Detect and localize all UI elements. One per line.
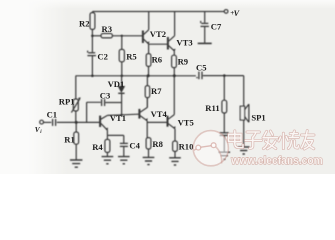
ground R10 <box>169 158 181 165</box>
resistor R8 <box>146 138 151 149</box>
transistor VT3 <box>167 37 169 50</box>
svg-text:R6: R6 <box>152 55 163 65</box>
wire R3 run <box>92 35 101 37</box>
wire VT2 emitter to VT3 base <box>149 43 168 45</box>
scan background <box>0 0 335 174</box>
svg-text:SP1: SP1 <box>251 112 265 122</box>
svg-text:R5: R5 <box>126 52 137 62</box>
wire VT5 collector column <box>173 76 175 115</box>
svg-text:C5: C5 <box>196 62 207 72</box>
capacitor C3 <box>87 102 101 122</box>
transistor VT4 <box>138 109 140 119</box>
svg-text:C2: C2 <box>97 51 108 61</box>
wire VT2 emitter down <box>148 44 150 53</box>
ground C4 <box>118 157 130 164</box>
svg-text:R10: R10 <box>179 142 194 152</box>
wire VT3 emitter down <box>173 51 175 55</box>
电 <box>229 131 243 148</box>
resistor R4 <box>106 135 108 139</box>
ground R8 <box>143 157 155 164</box>
发 <box>263 131 278 149</box>
wire VT1 emitter <box>107 130 123 135</box>
svg-text:R4: R4 <box>92 142 103 152</box>
svg-text:R1: R1 <box>64 134 75 144</box>
node input junction <box>75 121 78 124</box>
transistor VT1 <box>99 116 101 127</box>
子 <box>245 132 261 148</box>
node R5-VD1 bus <box>121 75 124 78</box>
svg-text:VT3: VT3 <box>176 37 192 47</box>
svg-text:VD1: VD1 <box>108 79 125 89</box>
svg-text:R7: R7 <box>151 86 162 96</box>
capacitor C5 <box>198 72 200 80</box>
svg-text:R8: R8 <box>152 139 163 149</box>
svg-text:VT4: VT4 <box>151 109 168 119</box>
resistor R10 <box>173 141 178 151</box>
svg-text:R2: R2 <box>79 18 90 28</box>
node R2-R3 junction <box>91 35 94 38</box>
svg-text:VT2: VT2 <box>150 29 166 39</box>
resistor R6 <box>146 54 151 67</box>
resistor R5 <box>121 36 123 50</box>
svg-text:VT5: VT5 <box>178 117 194 127</box>
resistor R7 <box>145 86 150 98</box>
resistor R9 <box>172 55 177 67</box>
wire mid horizontal bus <box>76 75 196 77</box>
capacitor C6 <box>220 132 229 134</box>
potentiometer RP1 <box>75 76 77 99</box>
resistor R11 <box>223 76 225 101</box>
svg-text:R11: R11 <box>205 103 219 113</box>
capacitor C4 <box>123 135 125 143</box>
diode VD1 <box>121 76 123 86</box>
svg-text:www.elecfans.com: www.elecfans.com <box>230 155 323 167</box>
watermark logo circle <box>193 131 228 166</box>
wire C5 to speaker <box>203 76 244 107</box>
terminal +V <box>224 10 228 14</box>
capacitor C7 <box>204 12 206 23</box>
node C2-bus <box>91 75 94 78</box>
capacitor C2 <box>87 51 89 53</box>
wire input to VT1 base <box>57 121 100 123</box>
wire VT5 emitter down <box>174 129 176 141</box>
resistor R1 <box>75 122 77 132</box>
speaker SP1 <box>240 106 244 120</box>
wire VT4 emitter down to R8 <box>146 121 148 138</box>
svg-text:C4: C4 <box>129 140 140 150</box>
svg-text:RP1: RP1 <box>59 96 75 106</box>
svg-text:C1: C1 <box>47 110 58 120</box>
友 <box>301 131 314 149</box>
transistor VT5 <box>167 116 169 127</box>
node R9-VT5 bus <box>173 74 176 77</box>
capacitor C1 <box>52 119 54 126</box>
svg-text:R3: R3 <box>102 24 113 34</box>
svg-text:C3: C3 <box>100 90 111 100</box>
wire VT4 emitter to VT5 base <box>147 121 167 123</box>
wire VT1 collector to VT4 base <box>107 114 138 115</box>
node VD1-collector wire <box>120 114 122 116</box>
resistor R3 <box>101 34 112 38</box>
svg-text:C7: C7 <box>211 22 222 32</box>
烧 <box>279 131 299 149</box>
node R3-R5 junction <box>121 35 123 37</box>
ground SP1 <box>238 147 250 154</box>
watermark CJK text 电子发烧友 (stylized strokes) <box>229 131 314 149</box>
svg-text:R9: R9 <box>178 57 189 67</box>
resistor R2 <box>91 12 93 13</box>
node R6-R7 bus <box>147 74 150 77</box>
svg-text:VT1: VT1 <box>110 113 126 123</box>
ground R4 <box>102 157 114 164</box>
ground C6 <box>219 152 231 159</box>
wire top supply rail <box>92 11 224 13</box>
ground R1 <box>70 160 82 167</box>
transistor VT2 <box>142 31 144 44</box>
input terminal Vi <box>40 120 44 124</box>
